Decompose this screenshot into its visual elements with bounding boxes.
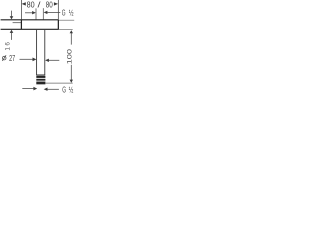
svg-text:G: G xyxy=(62,85,66,94)
svg-text:½: ½ xyxy=(69,7,74,17)
wire ceiling extension right xyxy=(59,19,74,21)
node G1/2 top arrow pointing left xyxy=(44,11,48,14)
wire extension line right of 80/80 dimension xyxy=(57,0,59,19)
wire G1/2 bottom leader shaft xyxy=(48,88,59,90)
svg-text:½: ½ xyxy=(69,84,74,94)
wire dim16 upper shaft xyxy=(11,11,13,17)
node thread band 3 xyxy=(36,82,45,85)
node thread band 1 xyxy=(36,76,45,78)
node thread band 2 xyxy=(36,79,45,81)
wire plate bottom line xyxy=(1,28,59,30)
node d27 arrow pointing right xyxy=(33,58,37,62)
wire G1/2 tick right xyxy=(42,8,44,19)
node dim16 arrow down xyxy=(10,16,14,19)
wire thread bottom extension xyxy=(46,82,73,84)
wire plate bottom extension right xyxy=(59,29,73,31)
wire pipe right wall xyxy=(44,30,46,75)
svg-text:80: 80 xyxy=(46,0,53,9)
wire plate right edge xyxy=(57,20,59,29)
wire dim100 line upper xyxy=(70,33,72,45)
node dim100 arrow down xyxy=(70,80,73,83)
wire G1/2 leader left shaft xyxy=(25,12,32,14)
wire pipe left wall xyxy=(36,30,38,75)
wire small ledge line left of plate xyxy=(13,22,22,24)
wire thread shoulder xyxy=(36,74,45,76)
wire dim100 line lower xyxy=(70,65,72,82)
svg-text:80: 80 xyxy=(27,0,35,9)
wire dim16 lower shaft xyxy=(11,33,13,40)
node G1/2 bottom arrow pointing left xyxy=(44,88,48,91)
node 80/80 arrow right xyxy=(54,2,58,5)
wire d27 leader right shaft xyxy=(49,59,60,61)
svg-text:100: 100 xyxy=(67,48,74,64)
node dim100 arrow up xyxy=(70,30,73,33)
wire ceiling line xyxy=(1,19,59,21)
node d27 arrow pointing left xyxy=(45,59,49,62)
wire extension line left of 80/80 dimension xyxy=(20,0,22,19)
wire G1/2 bottom left shaft xyxy=(22,88,34,90)
wire G1/2 tick left xyxy=(35,8,37,19)
node diameter symbol xyxy=(2,55,6,61)
svg-text:G: G xyxy=(62,8,66,17)
svg-text:16: 16 xyxy=(4,42,11,51)
svg-text:27: 27 xyxy=(9,54,15,63)
wire G1/2 leader right shaft xyxy=(47,11,60,13)
wire d27 leader left shaft xyxy=(20,58,35,60)
wire plate left edge xyxy=(20,20,22,29)
node 80/80 arrow left xyxy=(22,2,26,5)
node dim16 arrow up xyxy=(10,30,14,33)
node G1/2 bottom arrow pointing right xyxy=(33,87,37,91)
node G1/2 top arrow pointing right xyxy=(32,11,36,14)
